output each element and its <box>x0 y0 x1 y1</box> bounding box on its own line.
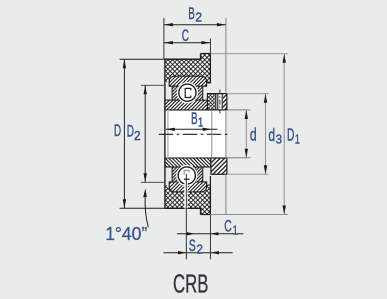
ball top <box>179 84 196 101</box>
housing bottom step surface <box>201 185 211 215</box>
dimension D <box>123 59 126 208</box>
svg-text:2: 2 <box>134 128 141 143</box>
housing hatch top step block <box>201 54 211 84</box>
dimension C <box>164 41 211 44</box>
housing hatch bottom main band <box>165 192 208 208</box>
ball bottom <box>178 167 195 184</box>
svg-text:D: D <box>114 121 121 140</box>
B1 extension right (grey) <box>211 110 213 158</box>
housing hatch bottom step block <box>201 185 211 215</box>
dimension d3 <box>264 94 267 175</box>
svg-text:2: 2 <box>196 242 203 257</box>
svg-text:D: D <box>287 125 294 145</box>
bore white area <box>165 110 212 158</box>
ball bottom halo <box>176 165 197 186</box>
svg-text:S: S <box>189 236 196 255</box>
svg-text:d: d <box>250 125 257 145</box>
ball top halo <box>177 82 198 103</box>
svg-text:C: C <box>182 26 189 45</box>
svg-text:3: 3 <box>276 132 282 147</box>
housing hatch top main band <box>165 59 208 76</box>
flange mid white area <box>212 110 226 158</box>
extension lines d (grey) <box>227 109 250 111</box>
svg-text:1: 1 <box>295 131 300 146</box>
flange face extension (S2/C1 right) <box>209 215 211 260</box>
ball bottom centre mark <box>184 170 189 175</box>
extension lines D2 <box>141 84 165 86</box>
dimension d <box>245 110 248 158</box>
svg-text:1: 1 <box>233 222 238 237</box>
extension line B2/C left <box>163 18 165 59</box>
outer ring bottom <box>169 182 206 192</box>
svg-text:2: 2 <box>195 10 202 25</box>
bore chamfer line <box>167 110 169 158</box>
angle leader 1deg40 <box>143 188 148 227</box>
dimension S2 <box>163 251 232 254</box>
flange face line bottom <box>209 176 211 215</box>
svg-text:B: B <box>188 4 195 23</box>
extension lines D1 (grey) <box>210 53 288 55</box>
housing top surface <box>120 58 165 60</box>
svg-text:1°40”: 1°40” <box>105 224 147 244</box>
collar bottom box <box>211 158 227 174</box>
extension line C right <box>209 39 211 54</box>
housing top step surface <box>201 54 211 84</box>
svg-text:1: 1 <box>198 115 203 130</box>
housing hatch bottom left lobe <box>165 183 172 192</box>
outer ring top <box>169 76 206 86</box>
svg-text:C: C <box>224 216 232 235</box>
cage strip bottom right <box>195 165 203 182</box>
left face line <box>164 59 166 208</box>
cage strip bottom left <box>172 165 179 182</box>
dimension B2 <box>164 23 226 26</box>
dimension D1 <box>283 54 286 215</box>
housing bottom surface <box>120 207 165 209</box>
ball top centre mark <box>185 88 191 98</box>
extension lines d3 (grey) <box>227 93 269 95</box>
inner ring bottom <box>165 158 211 167</box>
ball centre plane line (S2 extension) <box>184 182 187 209</box>
dimension C1 <box>177 232 244 235</box>
svg-text:B: B <box>191 109 198 128</box>
svg-text:d: d <box>268 125 275 145</box>
svg-text:D: D <box>127 122 134 141</box>
set screw centreline <box>219 90 221 114</box>
dimension D2 <box>144 85 147 182</box>
collar top box <box>207 94 227 110</box>
dimension B1 <box>166 128 218 131</box>
cage strip top left <box>172 86 179 103</box>
cage strip top right <box>195 86 203 103</box>
housing hatch top left lobe <box>165 76 172 85</box>
axis centreline <box>159 133 229 135</box>
flange outline right (grey) <box>225 18 227 94</box>
inner ring top <box>165 100 212 110</box>
svg-text:CRB: CRB <box>173 268 209 298</box>
